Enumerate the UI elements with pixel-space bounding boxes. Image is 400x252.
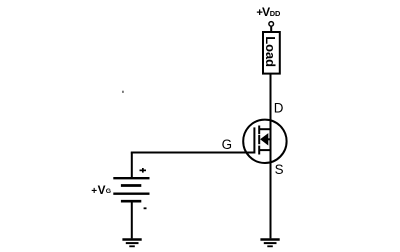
label +VG (gate supply): [91, 183, 111, 197]
transistor Q1: channel segment (source side): [258, 146, 260, 155]
label +VDD (supply net): [256, 5, 281, 19]
wire: gate lead from battery corner to gate bar: [131, 152, 255, 154]
svg-text:G: G: [222, 137, 232, 152]
battery VG: plate 3 (long, +): [113, 193, 149, 195]
transistor Q1: channel segment (body, middle): [258, 135, 260, 144]
wire: battery - terminal down to ground: [131, 201, 133, 238]
load resistor (box): [263, 32, 280, 74]
label - (battery negative): [144, 207, 147, 209]
stray ink speck: [122, 91, 123, 93]
wire: load bottom to drain, through MOSFET to source, down to ground: [270, 74, 272, 239]
battery VG: plate 1 (long, +): [113, 177, 149, 179]
ground (right, source return): [260, 240, 279, 247]
power terminal +VDD (open circle): [269, 22, 274, 27]
battery VG: plate 2 (short, -): [121, 184, 141, 187]
svg-text:S: S: [275, 162, 284, 177]
label + (battery positive): [140, 168, 147, 173]
transistor Q1: drain stub: [259, 128, 271, 130]
svg-text:Load: Load: [263, 36, 278, 67]
wire: +VDD terminal to load top: [270, 27, 272, 32]
battery VG: plate 4 (short, -): [121, 200, 141, 203]
transistor Q1: source stub: [259, 149, 271, 151]
ground (left, battery return): [122, 240, 141, 247]
transistor Q1: body arrow (points to channel, N-channel): [260, 133, 268, 145]
svg-text:+: +: [91, 186, 97, 197]
transistor Q1: gate bar: [253, 127, 255, 153]
svg-text:D: D: [274, 101, 284, 116]
transistor Q1: channel segment (drain side): [258, 126, 260, 135]
transistor Q1: N-channel enhancement MOSFET body circle: [243, 120, 286, 163]
wire: down from corner to battery + terminal: [131, 153, 133, 178]
